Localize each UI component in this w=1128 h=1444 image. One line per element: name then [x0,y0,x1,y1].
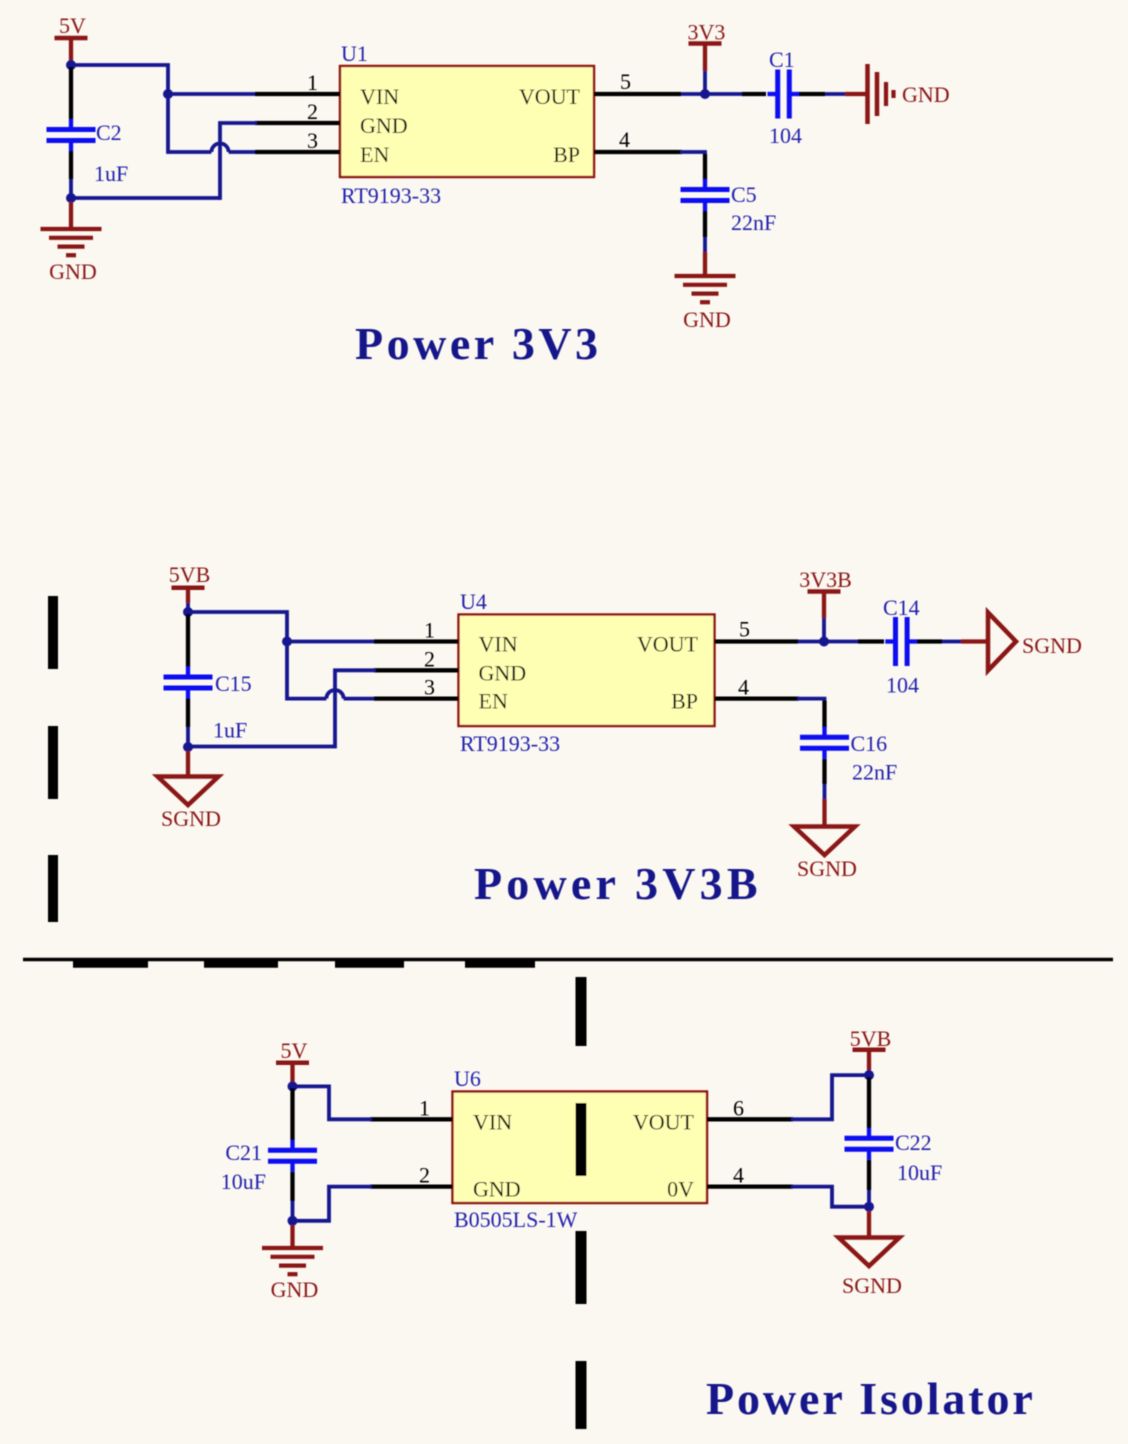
svg-text:GND: GND [902,82,950,107]
ground SGND stub below C16 [822,799,826,826]
power port 5V isolator [276,1038,309,1082]
power port 3V3B [799,567,852,618]
IC U6 B0505LS-1W body [453,1092,708,1204]
C2 designator [96,120,122,145]
U4 pin 4 number [738,675,749,700]
svg-text:GND: GND [479,660,527,685]
wire C21 top black [290,1088,294,1140]
svg-text:6: 6 [733,1095,744,1120]
wire C2 bottom blue stub [69,179,73,194]
U1 pin 3 wire [255,150,340,154]
node 5V junction [66,60,76,70]
wire 0V rail to U6 [793,1187,869,1207]
U6 pin name 0V [667,1177,694,1202]
U6 pin name GND [473,1177,521,1202]
U4 pin 3 wire [374,696,459,700]
C5 designator [731,182,757,207]
wire C14 to SGND blue stub [942,640,961,644]
svg-text:U4: U4 [460,589,487,614]
svg-text:4: 4 [733,1163,744,1188]
isolation boundary left vertical dashed line [48,596,58,922]
power port 3V3 [688,20,726,72]
U1 pin 1 wire [255,92,340,96]
U1 pin 1 number [307,70,318,95]
U6 pin name VOUT [633,1109,695,1134]
svg-text:2: 2 [424,646,435,671]
isolation boundary center vertical dashed line [576,977,587,1429]
IC U1 RT9193-33 body [340,66,594,177]
C16 value 22nF [852,760,897,785]
U4 pin name GND [479,660,527,685]
wire bottom rail U4 [188,745,335,749]
wire C2 top black [69,67,73,119]
svg-text:1uF: 1uF [94,161,128,186]
wire C14 right black [917,639,942,643]
wire 5VB stub blue [186,603,190,612]
svg-text:SGND: SGND [797,856,857,881]
U1 pin name BP [553,142,580,167]
IC U4 RT9193-33 body [459,615,715,727]
ground GND label isolator [271,1277,319,1302]
U4 part number RT9193-33 [460,731,560,756]
svg-text:RT9193-33: RT9193-33 [341,183,441,208]
svg-text:5: 5 [620,69,631,94]
svg-text:C2: C2 [96,120,122,145]
ground SGND label isolator [842,1273,902,1298]
capacitor C22 [845,1128,894,1160]
C16 designator [851,731,888,756]
svg-text:1: 1 [424,618,435,643]
wire C21 bottom black [290,1172,294,1201]
wire VIN branch [168,92,255,96]
ground SGND label below C16 [797,856,857,881]
node 5VB junction [183,607,193,617]
wire VOUT junction to C14 [798,640,858,644]
ground SGND symbol right [988,613,1016,671]
C21 value 10uF [221,1169,266,1194]
wire C5 bottom blue [703,237,707,252]
node C21 bottom junction [288,1216,298,1226]
U1 pin 2 wire [255,121,340,125]
svg-text:10uF: 10uF [897,1160,942,1185]
U4 pin 1 number [424,618,435,643]
wire C22 bottom black [867,1160,871,1190]
wire VOUT junction to C1 [681,92,742,96]
wire EN run left of hop [168,150,211,154]
svg-text:2: 2 [307,99,318,124]
C2 value 1uF [94,161,128,186]
svg-text:GND: GND [49,259,97,284]
wire EN run right of hop [229,150,255,154]
capacitor C15 [164,667,213,699]
wire GND pin to bottom rail [220,123,255,198]
node VIN branch junction U4 [282,637,292,647]
wire C14 left black [858,639,884,643]
svg-text:4: 4 [738,675,749,700]
svg-text:5VB: 5VB [850,1026,892,1051]
wire C15 bottom black [186,699,190,728]
U6 pin 4 wire [707,1184,793,1188]
svg-text:GND: GND [683,307,731,332]
ground GND label [49,259,97,284]
ground SGND right stub [961,639,988,643]
U6 part number B0505LS-1W [454,1207,578,1232]
svg-text:1: 1 [307,70,318,95]
wire 3V3B stub blue [822,618,826,642]
wire C16 bottom blue [823,784,827,799]
U1 pin name VIN [360,84,399,109]
U4 pin name BP [671,689,698,714]
section separator thin line [23,958,1113,961]
C1 value 104 [769,123,802,148]
svg-text:SGND: SGND [1022,633,1082,658]
U1 pin 4 wire [594,150,682,154]
U1 pin 5 number [620,69,631,94]
wire 5VB to VIN corner [188,612,287,699]
U4 pin 5 number [739,617,750,642]
ground GND right stub [845,92,866,96]
capacitor C16 [800,727,849,759]
wire 5V to VIN U6 [293,1086,371,1119]
U6 pin 4 number [733,1163,744,1188]
wire C15 top black [186,614,190,667]
ground GND label below C5 [683,307,731,332]
svg-text:VOUT: VOUT [633,1109,695,1134]
wire 5VB stub blue isolator [867,1070,871,1075]
svg-text:3: 3 [424,675,435,700]
svg-text:C16: C16 [851,731,888,756]
capacitor C14 [885,617,917,666]
ground SGND stub [186,751,190,776]
svg-text:BP: BP [553,142,580,167]
ground SGND symbol below C16 [794,827,855,856]
U1 part number RT9193-33 [341,183,441,208]
C15 designator [215,671,252,696]
wire GND pin to bottom rail U4 [335,670,374,746]
U1 pin name VOUT [519,84,581,109]
U4 pin name VOUT [637,632,699,657]
ground GND stub below C5 [703,252,707,276]
svg-text:SGND: SGND [161,806,221,831]
ground GND stub [69,202,73,229]
capacitor C21 [268,1140,317,1172]
wire C15 bottom blue [186,727,190,743]
ground SGND label right [1022,633,1082,658]
wire 5VB to VOUT U6 [793,1075,869,1119]
U6 pin 6 wire [707,1117,793,1121]
ground GND label right [902,82,950,107]
svg-text:BP: BP [671,689,698,714]
svg-text:C22: C22 [895,1130,932,1155]
ground SGND label [161,806,221,831]
capacitor C2 [47,119,96,151]
svg-text:RT9193-33: RT9193-33 [460,731,560,756]
capacitor C5 [681,179,730,211]
title Power 3V3B [474,858,762,909]
ground SGND stub isolator [867,1211,871,1237]
wire C1 left black [742,92,766,96]
wire VIN branch U4 [287,640,374,644]
svg-text:104: 104 [886,673,919,698]
wire C1 right black [799,92,825,96]
wire C21 bottom blue [291,1201,295,1217]
svg-text:EN: EN [360,142,389,167]
svg-text:U1: U1 [341,41,368,66]
power port 5VB isolator [850,1026,892,1070]
wire C16 top black [822,701,826,728]
svg-text:VIN: VIN [479,632,518,657]
svg-text:C14: C14 [883,595,920,620]
U6 pin 2 wire [370,1184,453,1188]
svg-text:Power 3V3: Power 3V3 [355,318,602,369]
U1 pin 2 number [307,99,318,124]
svg-text:GND: GND [271,1277,319,1302]
C22 designator [895,1130,932,1155]
U4 designator [460,589,487,614]
ground GND symbol below C5 [675,276,736,302]
ground GND symbol right [868,64,894,124]
wire C5 bottom black [703,211,707,237]
wire bottom rail [71,196,220,200]
U4 pin 4 wire [715,696,800,700]
svg-text:Power Isolator: Power Isolator [706,1373,1036,1424]
wire BP to C5 corner [682,152,705,156]
U1 designator [341,41,368,66]
isolation boundary horizontal dashed line [73,958,535,968]
wire EN run left of hop U4 [287,697,326,701]
node VOUT junction [700,89,710,99]
C22 value 10uF [897,1160,942,1185]
U4 pin 5 wire [715,639,799,643]
svg-text:10uF: 10uF [221,1169,266,1194]
ground GND symbol [41,229,102,255]
svg-text:VOUT: VOUT [637,632,699,657]
svg-text:1uF: 1uF [213,718,247,743]
svg-text:5V: 5V [281,1038,308,1063]
wire C5 top black [703,154,707,180]
svg-text:4: 4 [619,127,630,152]
U6 pin 6 number [733,1095,744,1120]
C14 value 104 [886,673,919,698]
title Power 3V3 [355,318,602,369]
U4 pin name EN [479,689,508,714]
svg-text:3: 3 [307,128,318,153]
svg-text:5VB: 5VB [169,562,211,587]
U1 pin name GND [360,113,408,138]
svg-text:5V: 5V [59,13,86,38]
ground SGND symbol isolator [839,1238,900,1267]
U1 pin 5 wire [594,92,681,96]
U1 pin 4 number [619,127,630,152]
svg-text:1: 1 [419,1095,430,1120]
svg-text:U6: U6 [454,1066,481,1091]
svg-text:3V3B: 3V3B [799,567,852,592]
svg-text:VIN: VIN [360,84,399,109]
C1 designator [769,47,795,72]
node C2 bottom junction [66,193,76,203]
svg-text:B0505LS-1W: B0505LS-1W [454,1207,578,1232]
ground GND stub isolator [290,1225,294,1248]
capacitor C1 [768,70,800,119]
U4 pin 2 wire [374,668,459,672]
node 5VB junction isolator [864,1070,874,1080]
svg-text:GND: GND [360,113,408,138]
wire EN run right of hop U4 [344,697,374,701]
wire hop over GND wire U4 [326,690,343,699]
svg-text:C5: C5 [731,182,757,207]
wire C2 bottom black [69,151,73,179]
wire 3V3 stub blue [703,71,707,94]
U1 pin 3 number [307,128,318,153]
node 5V junction isolator [288,1081,298,1091]
wire C22 top black [867,1077,871,1128]
wire C16 bottom black [822,759,826,784]
svg-text:SGND: SGND [842,1273,902,1298]
node VIN branch junction [163,89,173,99]
U6 pin name VIN [473,1109,512,1134]
C21 designator [225,1140,262,1165]
U4 pin name VIN [479,632,518,657]
svg-text:GND: GND [473,1177,521,1202]
U1 pin name EN [360,142,389,167]
svg-text:VIN: VIN [473,1109,512,1134]
title Power Isolator [706,1373,1036,1424]
power port 5V [55,13,88,61]
C5 value 22nF [731,210,776,235]
wire C1 to GND blue stub [825,92,845,96]
node VOUT junction U4 [819,637,829,647]
wire C22 bottom blue [867,1190,871,1203]
svg-text:C21: C21 [225,1140,262,1165]
ground SGND symbol [158,777,219,806]
svg-text:22nF: 22nF [731,210,776,235]
wire 5V to VIN corner [71,65,168,152]
wire BP to C16 corner [799,699,825,702]
U4 pin 1 wire [374,639,459,643]
C14 designator [883,595,920,620]
node C22 bottom junction [864,1202,874,1212]
svg-text:Power 3V3B: Power 3V3B [474,858,762,909]
wire hop over GND wire [211,143,228,152]
svg-text:22nF: 22nF [852,760,897,785]
svg-text:104: 104 [769,123,802,148]
svg-text:0V: 0V [667,1177,694,1202]
svg-text:C15: C15 [215,671,252,696]
svg-text:5: 5 [739,617,750,642]
ground GND symbol isolator [262,1248,323,1274]
node C15 bottom junction [183,742,193,752]
U6 pin 1 number [419,1095,430,1120]
svg-text:C1: C1 [769,47,795,72]
U6 pin 1 wire [370,1117,453,1121]
U4 pin 2 number [424,646,435,671]
svg-text:VOUT: VOUT [519,84,581,109]
svg-text:2: 2 [419,1163,430,1188]
U6 designator [454,1066,481,1091]
U6 pin 2 number [419,1163,430,1188]
wire GND rail to U6 [293,1187,371,1221]
svg-text:EN: EN [479,689,508,714]
U4 pin 3 number [424,675,435,700]
svg-text:3V3: 3V3 [688,20,726,45]
C15 value 1uF [213,718,247,743]
power port 5VB [169,562,211,603]
